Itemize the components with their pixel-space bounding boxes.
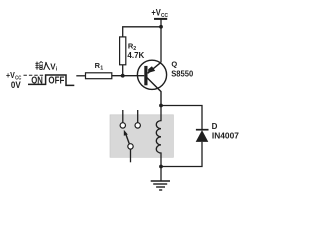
svg-text:Q: Q xyxy=(171,59,177,68)
wire collector junction to diode cathode branch xyxy=(161,106,202,130)
label S8550 xyxy=(171,70,194,79)
transistor emitter with arrow (PNP) xyxy=(148,62,161,73)
relay K1 body xyxy=(110,115,173,158)
power terminal bar +Vcc xyxy=(154,19,167,27)
svg-text:D: D xyxy=(212,122,218,131)
label 4.7K xyxy=(127,51,144,60)
wire Vcc junction to R2 top xyxy=(123,27,161,37)
svg-text:i: i xyxy=(56,67,58,73)
label OFF xyxy=(48,75,64,86)
svg-text:IN4007: IN4007 xyxy=(212,132,240,141)
transistor base bar xyxy=(144,66,147,85)
label R1 xyxy=(95,61,104,71)
svg-text:0V: 0V xyxy=(11,80,21,90)
svg-text:4.7K: 4.7K xyxy=(127,51,144,60)
wire R2 bottom to base node xyxy=(122,65,124,76)
wire bottom junction to diode anode xyxy=(161,142,202,167)
label Q xyxy=(171,59,177,68)
label 0V (waveform low level) xyxy=(11,80,21,90)
relay contact stub 1 xyxy=(120,110,125,128)
svg-text:1: 1 xyxy=(100,65,103,71)
svg-text:S8550: S8550 xyxy=(171,70,194,79)
svg-text:+V: +V xyxy=(151,8,160,18)
svg-text:+V: +V xyxy=(6,70,15,80)
label R2 xyxy=(128,42,136,52)
input wire to R1 xyxy=(76,75,85,77)
transistor collector xyxy=(146,77,161,106)
label +Vcc (top supply) xyxy=(151,8,168,20)
dashed Vcc reference line xyxy=(24,74,46,76)
resistor R2 xyxy=(120,37,126,65)
svg-text:OFF: OFF xyxy=(48,75,64,86)
label +Vcc (waveform high level) xyxy=(6,70,21,81)
label D xyxy=(212,122,218,131)
label IN4007 xyxy=(212,132,240,141)
relay moving contact with arrow xyxy=(124,130,133,163)
resistor R1 xyxy=(86,73,112,79)
wire Vcc to emitter xyxy=(160,27,162,63)
relay coil L xyxy=(156,106,161,167)
transistor Q1 circle xyxy=(137,60,166,89)
diode D (flyback) xyxy=(196,130,209,142)
node: bottom junction xyxy=(159,165,163,169)
wire R1 to transistor base xyxy=(112,75,145,77)
relay contact stub 2 xyxy=(135,110,140,128)
label ON xyxy=(31,75,43,86)
ground xyxy=(151,167,170,191)
label input Vi (hand-drawn CJK 输入 + Vi) xyxy=(35,61,50,69)
node: Vcc junction xyxy=(159,25,163,29)
input square-wave waveform xyxy=(28,75,74,85)
svg-text:ON: ON xyxy=(31,75,43,86)
node: collector junction xyxy=(159,104,163,108)
node: base junction xyxy=(121,74,125,78)
